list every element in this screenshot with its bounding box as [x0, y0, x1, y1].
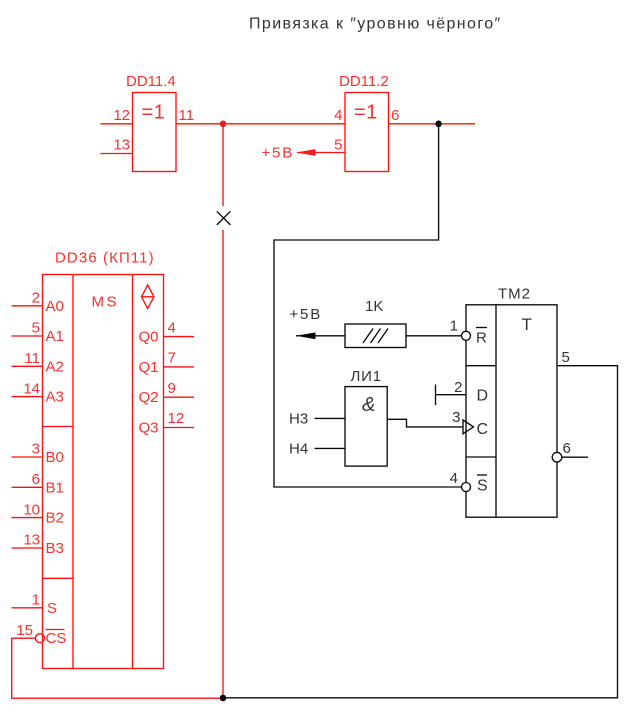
multiplexer DD36 (КП11)	[43, 275, 164, 669]
XOR gate DD11.4	[133, 93, 177, 172]
svg-text:9: 9	[168, 380, 176, 397]
svg-text:6: 6	[32, 471, 40, 488]
wire input pin 5 / A1	[12, 335, 43, 337]
dynamic input triangle at C	[463, 420, 474, 434]
svg-text:Т: Т	[522, 315, 532, 334]
wire input pin 6 / B1	[12, 486, 43, 488]
svg-text:&: &	[362, 394, 375, 416]
svg-text:10: 10	[23, 501, 40, 518]
wire vertical red from cut mark to bottom junction	[222, 230, 224, 698]
wire input pin 13 of DD11.4	[101, 153, 133, 155]
Z-state diamond symbol	[142, 285, 154, 309]
svg-text:11: 11	[179, 107, 195, 124]
bubble CS inverted input	[36, 634, 45, 643]
svg-text:B3: B3	[46, 540, 64, 557]
svg-text:=1: =1	[142, 102, 166, 124]
svg-text:ТМ2: ТМ2	[498, 286, 531, 303]
svg-text:5: 5	[32, 320, 40, 337]
svg-text:B0: B0	[46, 449, 64, 466]
svg-text:S: S	[47, 600, 57, 617]
svg-text:1: 1	[450, 318, 458, 335]
arrow +5V to pin 5	[296, 149, 316, 156]
wire resistor left to +5V arrow	[296, 335, 345, 337]
svg-text:12: 12	[168, 410, 185, 427]
svg-text:Q2: Q2	[139, 389, 159, 406]
svg-text:4: 4	[450, 470, 458, 487]
svg-text:3: 3	[32, 441, 40, 458]
svg-text:MS: MS	[92, 294, 120, 311]
wire vertical red from junction down to cut mark	[222, 124, 224, 206]
svg-text:A2: A2	[46, 358, 64, 375]
svg-text:5: 5	[334, 137, 342, 154]
svg-text:Н4: Н4	[289, 441, 308, 458]
svg-text:R: R	[476, 330, 487, 347]
wire output DD11.4 to DD11.2 input	[176, 123, 345, 125]
svg-text:DD11.4: DD11.4	[126, 73, 176, 90]
svg-text:DD36 (КП11): DD36 (КП11)	[55, 250, 155, 267]
svg-text:13: 13	[113, 137, 130, 154]
svg-text:=1: =1	[354, 102, 378, 124]
svg-text:7: 7	[168, 350, 176, 367]
wire input pin 2 / A0	[12, 305, 43, 307]
node junction on output wire	[220, 121, 227, 128]
wire output pin 12 / Q3	[164, 427, 195, 429]
svg-text:1K: 1K	[365, 298, 383, 315]
svg-text:15: 15	[16, 622, 33, 639]
AND gate ЛИ1	[345, 387, 387, 467]
svg-text:+5В: +5В	[262, 145, 295, 162]
wire output 5 to right rail	[223, 366, 618, 698]
svg-text:6: 6	[391, 107, 399, 124]
wire from CS pin 15 down to bottom rail	[12, 638, 223, 698]
hatching inside resistor	[363, 329, 388, 344]
wire input Н4	[315, 447, 346, 449]
wire output DD11.2	[389, 123, 476, 125]
node black junction on DD11.2 output	[435, 121, 442, 128]
wire resistor right to R input of TM2	[406, 335, 462, 337]
svg-text:+5В: +5В	[290, 306, 323, 323]
svg-text:A1: A1	[46, 328, 64, 345]
svg-text:CS: CS	[46, 630, 67, 647]
svg-text:2: 2	[32, 290, 40, 307]
svg-text:Q3: Q3	[139, 420, 159, 437]
bubble R inverted input	[462, 331, 471, 340]
wire input pin 10 / B2	[12, 517, 43, 519]
wire input pin 14 / A3	[12, 396, 43, 398]
svg-text:Н3: Н3	[289, 411, 308, 428]
overline above R	[476, 327, 487, 329]
wire input pin 1 / S	[12, 607, 43, 609]
wire output pin 7 / Q1	[164, 366, 195, 368]
svg-text:ЛИ1: ЛИ1	[351, 368, 382, 385]
overline above S	[477, 474, 487, 476]
XOR gate DD11.2	[345, 93, 389, 172]
svg-text:1: 1	[32, 592, 40, 609]
svg-text:S: S	[477, 478, 488, 495]
wire output pin 9 / Q2	[164, 396, 195, 398]
svg-text:4: 4	[168, 319, 176, 336]
svg-text:13: 13	[23, 532, 40, 549]
wire AND output to C input of TM2	[387, 419, 463, 427]
svg-text:2: 2	[454, 379, 462, 396]
bubble S inverted input	[462, 483, 471, 492]
flip-flop TM2	[466, 305, 557, 517]
svg-text:3: 3	[452, 409, 460, 426]
svg-text:B2: B2	[46, 510, 64, 527]
arrow +5V	[296, 332, 316, 339]
svg-text:Q1: Q1	[139, 359, 159, 376]
svg-text:5: 5	[562, 349, 570, 366]
resistor 1K	[345, 324, 406, 348]
svg-text:Q0: Q0	[139, 329, 159, 346]
wire input pin 11 / A2	[12, 365, 43, 367]
svg-text:DD11.2: DD11.2	[339, 73, 389, 90]
wire input pin 13 / B3	[12, 547, 43, 549]
wire input pin 5 of DD11.2 with +5V arrow	[297, 152, 345, 154]
svg-text:A3: A3	[46, 389, 64, 406]
cut mark X	[217, 211, 231, 225]
svg-text:A0: A0	[46, 298, 64, 315]
svg-text:14: 14	[23, 380, 40, 397]
svg-text:D: D	[477, 388, 489, 405]
wire black from junction down and left and down to S input of TM2	[274, 124, 462, 487]
svg-text:11: 11	[24, 350, 40, 367]
svg-text:4: 4	[334, 107, 342, 124]
wire output 6	[562, 456, 588, 458]
open end tick of D input	[435, 385, 437, 406]
wire output pin 4 / Q0	[164, 336, 195, 338]
wire input pin 12 of DD11.4	[101, 123, 133, 125]
wire D input pin 2	[436, 394, 467, 396]
overline above CS	[46, 629, 65, 631]
svg-text:12: 12	[113, 107, 130, 124]
svg-text:6: 6	[563, 440, 571, 457]
wire input pin 3 / B0	[12, 456, 43, 458]
svg-text:C: C	[477, 421, 489, 438]
wire input Н3	[315, 417, 346, 419]
bubble inverted output 6	[552, 452, 562, 462]
svg-text:B1: B1	[46, 479, 64, 496]
node bottom junction	[220, 695, 227, 702]
svg-text:Привязка к ″уровню чёрного″: Привязка к ″уровню чёрного″	[249, 16, 502, 33]
